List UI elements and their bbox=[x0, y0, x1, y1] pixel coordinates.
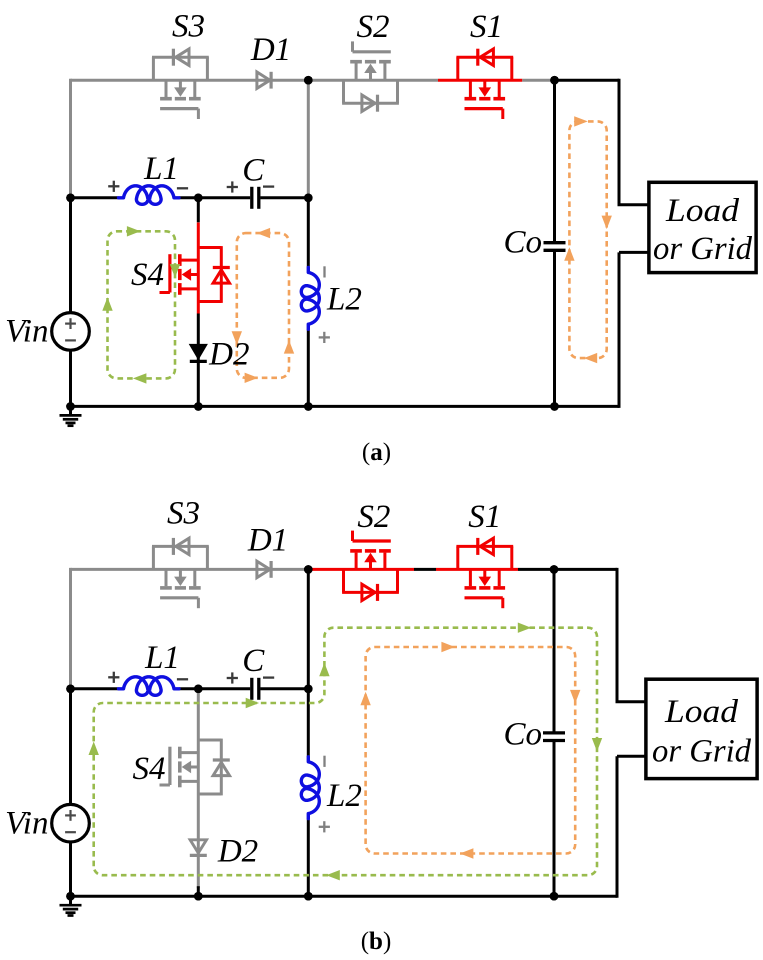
node C right / L2 top bbox=[304, 685, 313, 694]
svg-text:Co: Co bbox=[503, 225, 542, 261]
diode D2 bbox=[190, 840, 206, 853]
current loop green (a) bbox=[108, 231, 176, 378]
L1 polarity marks bbox=[108, 676, 119, 678]
wire Vin branch bbox=[69, 689, 72, 805]
current loop orange (b) bbox=[366, 647, 576, 854]
node L1 right / S4 top bbox=[194, 685, 203, 694]
svg-text:(a): (a) bbox=[362, 439, 391, 466]
transistor S2 bbox=[396, 80, 399, 103]
svg-text:C: C bbox=[242, 643, 265, 679]
capacitor C bbox=[250, 678, 253, 700]
wire top rail left section bbox=[71, 79, 439, 82]
load box bbox=[646, 679, 757, 778]
svg-text:D2: D2 bbox=[208, 337, 249, 373]
source Vin bbox=[52, 804, 90, 842]
wire Co branch bbox=[553, 569, 556, 733]
node ground bbox=[66, 402, 75, 411]
capacitor C bbox=[250, 187, 253, 209]
svg-text:S2: S2 bbox=[357, 499, 390, 535]
node Co bottom bbox=[550, 892, 559, 901]
wire L1 row bbox=[71, 196, 119, 199]
svg-text:or Grid: or Grid bbox=[653, 231, 752, 267]
svg-text:C: C bbox=[242, 153, 265, 189]
C polarity marks bbox=[227, 186, 238, 188]
diode D1 bbox=[257, 72, 270, 88]
ground bbox=[69, 406, 72, 414]
wire to load top bbox=[618, 79, 621, 205]
wire top rail left section bbox=[71, 568, 309, 571]
L2 polarity marks bbox=[323, 266, 325, 277]
node S4 bottom bbox=[194, 892, 203, 901]
wire L2 branch bbox=[307, 689, 310, 757]
node B (top right) bbox=[550, 565, 559, 574]
wire to load top bbox=[616, 568, 619, 702]
wire to load bottom bbox=[619, 251, 649, 254]
source Vin bbox=[52, 313, 90, 351]
C polarity marks bbox=[227, 677, 238, 679]
node C right / L2 top bbox=[304, 194, 313, 203]
wire S4 branch upper bbox=[197, 198, 200, 223]
svg-text:D2: D2 bbox=[217, 834, 258, 870]
transistor S4 bbox=[197, 223, 200, 314]
node L2 bottom bbox=[304, 892, 313, 901]
wire L1 row bbox=[71, 687, 119, 690]
wire left vertical (top rail to L1 node) bbox=[69, 79, 72, 198]
inductor L2 bbox=[301, 267, 319, 329]
svg-text:Vin: Vin bbox=[5, 806, 48, 842]
L2 polarity marks bbox=[323, 756, 325, 767]
wire bottom rail bbox=[71, 895, 618, 898]
node L1 right / S4 top bbox=[194, 194, 203, 203]
node L1 left bbox=[66, 685, 75, 694]
wire left vertical (top rail to L1 node) bbox=[69, 568, 72, 689]
svg-text:S4: S4 bbox=[133, 751, 166, 787]
wire Co branch bbox=[553, 80, 556, 243]
node L1 left bbox=[66, 194, 75, 203]
node junction dots bbox=[304, 565, 313, 574]
node S4 bottom bbox=[194, 402, 203, 411]
svg-text:D1: D1 bbox=[250, 32, 291, 68]
transistor S4 bbox=[197, 715, 200, 806]
svg-text:Vin: Vin bbox=[5, 314, 48, 350]
node ground bbox=[66, 892, 75, 901]
capacitor Co bbox=[544, 241, 566, 244]
svg-text:S1: S1 bbox=[468, 499, 501, 535]
wire to load bottom bbox=[617, 755, 646, 758]
svg-text:Load: Load bbox=[664, 694, 739, 730]
wire S4 branch upper bbox=[197, 689, 200, 715]
inductor L1 bbox=[119, 186, 180, 205]
wire S4 to D2 to bottom bbox=[197, 806, 200, 840]
load box bbox=[649, 182, 756, 272]
transistor S3 bbox=[152, 546, 155, 569]
node L2 bottom bbox=[304, 402, 313, 411]
node Co bottom bbox=[550, 402, 559, 411]
svg-text:L1: L1 bbox=[143, 151, 179, 187]
svg-text:S3: S3 bbox=[172, 9, 205, 45]
transistor S2 bbox=[396, 569, 399, 592]
node B (top right) bbox=[550, 76, 559, 85]
wire bottom rail bbox=[71, 405, 620, 408]
transistor S1 bbox=[456, 57, 459, 80]
svg-text:(b): (b) bbox=[361, 928, 392, 955]
svg-text:or Grid: or Grid bbox=[652, 734, 751, 770]
svg-text:S4: S4 bbox=[131, 257, 164, 293]
diode D1 bbox=[257, 561, 270, 577]
svg-text:S3: S3 bbox=[167, 496, 200, 532]
wire Vin branch bbox=[69, 198, 72, 313]
transistor S1 bbox=[456, 546, 459, 569]
L1 polarity marks bbox=[108, 185, 119, 187]
ground bbox=[69, 896, 72, 904]
current loop orange output (a) bbox=[569, 121, 606, 358]
wire L2 branch bbox=[307, 198, 310, 268]
node junction dots bbox=[304, 76, 313, 85]
svg-text:L2: L2 bbox=[326, 778, 362, 814]
svg-text:Load: Load bbox=[665, 193, 740, 229]
svg-text:Co: Co bbox=[503, 717, 542, 753]
inductor L2 bbox=[301, 757, 319, 819]
node A (D1 output) bbox=[304, 565, 313, 574]
diode D2 bbox=[190, 345, 207, 359]
node A (D1 output) bbox=[304, 76, 313, 85]
svg-text:L2: L2 bbox=[326, 282, 362, 318]
transistor S3 bbox=[152, 57, 155, 80]
inductor L1 bbox=[119, 677, 180, 696]
svg-text:S1: S1 bbox=[470, 9, 503, 45]
wire S4 to D2 to bottom bbox=[197, 314, 200, 345]
capacitor Co bbox=[543, 731, 565, 734]
svg-text:D1: D1 bbox=[247, 523, 288, 559]
current loop green (b) bbox=[94, 628, 597, 876]
wire D1 node to C node vertical bbox=[307, 80, 310, 198]
current loop orange inner (a) bbox=[237, 233, 289, 378]
svg-text:L1: L1 bbox=[144, 640, 180, 676]
svg-text:S2: S2 bbox=[357, 9, 390, 45]
wire D1 node to C node vertical bbox=[307, 569, 310, 688]
